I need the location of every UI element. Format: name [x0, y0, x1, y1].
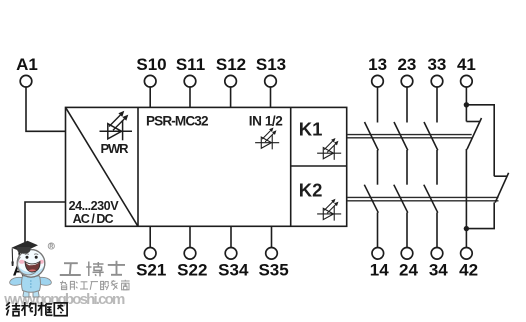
watermark registered mark — [48, 243, 54, 249]
NC mirror contact 41-42 — [466, 87, 481, 248]
svg-text:K1: K1 — [299, 119, 323, 140]
terminal A2 — [19, 248, 31, 260]
wire S10 — [149, 87, 151, 107]
NC aux branch wire bottom — [466, 202, 494, 228]
svg-text:S13: S13 — [256, 55, 286, 74]
wire S12 — [230, 87, 232, 107]
mascot right arm — [38, 277, 51, 285]
mechanical linkage K2 — [347, 197, 499, 200]
contact path 13-14 — [364, 87, 378, 248]
mascot left arm — [10, 277, 23, 285]
terminal 23 — [401, 75, 413, 87]
terminal A1 — [20, 75, 32, 87]
NC aux branch wire top — [466, 105, 494, 176]
wire S21 — [149, 226, 151, 247]
terminal S13 — [265, 75, 277, 87]
svg-text:S12: S12 — [216, 55, 246, 74]
wire S13 — [270, 87, 272, 107]
构 — [24, 302, 26, 316]
svg-text:S35: S35 — [258, 261, 288, 280]
char 博 — [88, 262, 90, 277]
能 — [70, 280, 75, 282]
terminal S34 — [225, 248, 237, 260]
mascot — [10, 241, 52, 297]
terminal S10 — [144, 75, 156, 87]
svg-text:42: 42 — [459, 261, 478, 280]
svg-text:41: 41 — [457, 55, 476, 74]
mechanical linkage K1 — [347, 135, 472, 138]
terminal 14 — [372, 248, 384, 260]
svg-text:34: 34 — [429, 261, 448, 280]
junction node bottom — [464, 226, 469, 231]
junction node top — [464, 102, 469, 107]
务 — [111, 280, 115, 282]
wire S11 — [189, 87, 191, 107]
wire A2 — [25, 202, 66, 248]
contact path 33-34 — [424, 87, 438, 248]
mascot legs — [23, 290, 29, 297]
terminal S11 — [184, 75, 196, 87]
relay section divider — [290, 107, 292, 226]
svg-text:13: 13 — [368, 55, 387, 74]
mascot head — [17, 249, 45, 277]
工 — [81, 281, 88, 283]
terminal circles top row — [19, 75, 472, 259]
mascot mouth — [25, 262, 40, 273]
svg-text:PSR-MC32: PSR-MC32 — [146, 113, 209, 128]
terminal S22 — [184, 248, 196, 260]
terminal 33 — [431, 75, 443, 87]
mascot graduation cap — [12, 241, 39, 253]
svg-text:A1: A1 — [16, 55, 38, 74]
mascot face arc — [18, 257, 36, 275]
watermark brand 工博士 — [60, 261, 125, 277]
power section diagonal — [66, 108, 138, 226]
char 士 — [116, 261, 118, 275]
caption 结构框图 — [6, 302, 67, 316]
svg-text:14: 14 — [370, 261, 389, 280]
svg-text:33: 33 — [427, 55, 446, 74]
svg-text:S10: S10 — [136, 55, 166, 74]
商 — [121, 280, 130, 282]
结 — [6, 302, 10, 306]
mascot cheeks — [19, 260, 25, 264]
terminal S21 — [144, 248, 156, 260]
K1/K2 divider — [291, 165, 347, 167]
terminal S35 — [266, 248, 278, 260]
NC aux contact blade — [495, 173, 508, 203]
服 — [101, 281, 104, 289]
NC aux contact bar — [494, 175, 507, 177]
svg-text:AC / DC: AC / DC — [73, 212, 114, 226]
svg-text:IN 1/2: IN 1/2 — [249, 113, 283, 128]
svg-text:S11: S11 — [176, 55, 205, 74]
terminal 24 — [401, 248, 413, 260]
svg-text:S22: S22 — [177, 261, 207, 280]
厂 — [91, 281, 98, 283]
terminal 42 — [461, 248, 473, 260]
wire S34 — [230, 226, 232, 247]
mascot eyes — [26, 256, 29, 259]
svg-text:23: 23 — [397, 55, 416, 74]
图 — [54, 303, 67, 316]
wire A1 — [26, 87, 66, 131]
svg-text:S21: S21 — [136, 261, 166, 280]
mascot buttons — [30, 280, 32, 288]
contact path 23-24 — [394, 87, 408, 248]
power section divider — [137, 107, 139, 226]
LED symbol IN — [255, 127, 279, 149]
框 — [41, 302, 43, 316]
LED symbol PWR — [100, 111, 133, 141]
LED symbol K2 — [317, 199, 341, 221]
mascot body — [22, 276, 41, 292]
wire S22 — [189, 226, 191, 247]
terminal S12 — [225, 75, 237, 87]
LED symbol K1 — [317, 138, 341, 160]
char 工 — [64, 262, 78, 264]
svg-text:24: 24 — [399, 261, 418, 280]
module main box PSR-MC32 — [66, 107, 347, 226]
watermark slogan 智能工厂服务商 — [60, 280, 130, 290]
svg-text:K2: K2 — [299, 179, 323, 200]
terminal 13 — [372, 75, 384, 87]
svg-text:24...230V: 24...230V — [69, 199, 120, 213]
svg-text:PWR: PWR — [101, 141, 130, 156]
智 — [60, 282, 66, 284]
terminal 41 — [461, 75, 473, 87]
terminal 34 — [431, 248, 443, 260]
svg-text:S34: S34 — [218, 261, 249, 280]
wire S35 — [271, 226, 273, 247]
